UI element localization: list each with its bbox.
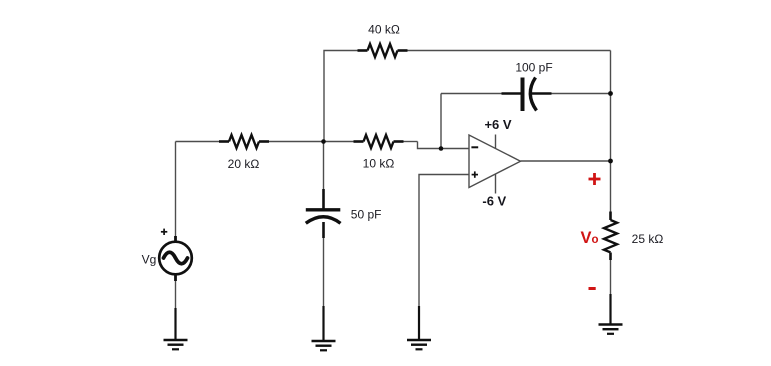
svg-text:40 kΩ: 40 kΩ: [368, 23, 400, 37]
svg-text:10 kΩ: 10 kΩ: [363, 157, 395, 171]
svg-text:20 kΩ: 20 kΩ: [228, 157, 260, 171]
svg-text:50 pF: 50 pF: [351, 207, 382, 221]
svg-text:-6 V: -6 V: [482, 193, 506, 208]
svg-text:+6 V: +6 V: [484, 117, 511, 132]
svg-text:100 pF: 100 pF: [515, 60, 552, 74]
svg-text:Vo: Vo: [581, 229, 599, 247]
svg-text:Vg: Vg: [142, 253, 157, 267]
svg-text:25 kΩ: 25 kΩ: [632, 232, 664, 246]
